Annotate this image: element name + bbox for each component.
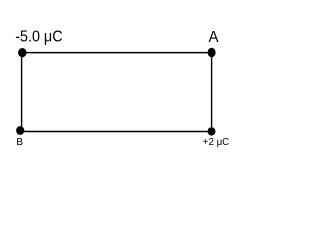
wire bottom	[22, 131, 212, 133]
charge -5.0 uC (top-left node)	[18, 48, 27, 57]
svg-text:B: B	[16, 137, 23, 148]
node B (bottom-left)	[16, 126, 24, 135]
wire top	[22, 52, 212, 54]
svg-text:-5.0 μC: -5.0 μC	[15, 29, 62, 46]
node A (top-right)	[208, 48, 216, 57]
charge +2 uC (bottom-right node)	[208, 127, 216, 135]
svg-text:A: A	[209, 29, 219, 46]
wire right	[211, 53, 213, 132]
svg-text:+2 μC: +2 μC	[203, 137, 229, 148]
wire left	[21, 53, 23, 132]
